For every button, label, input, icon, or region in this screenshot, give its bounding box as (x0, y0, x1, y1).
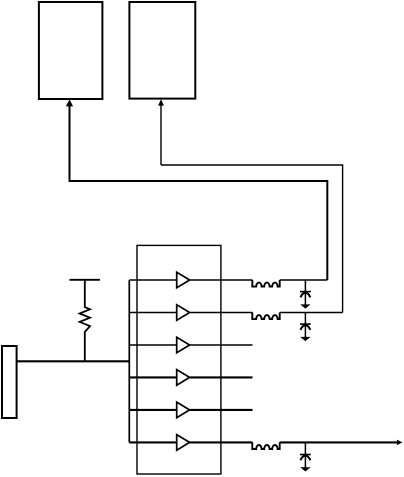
wire row3 stub (190, 344, 253, 346)
input bus (128, 280, 130, 442)
arrowhead into box 2 (158, 99, 164, 105)
wire row4 left (129, 376, 177, 378)
wire row5 stub (190, 409, 253, 411)
buffer U1E (177, 402, 190, 418)
arrowhead into box 1 (66, 99, 73, 106)
buffer U1C (177, 337, 190, 353)
inductor L1 (252, 280, 279, 287)
diode stack D1 (300, 280, 311, 309)
diode stack D3 (300, 442, 311, 471)
wire row4 stub (190, 376, 253, 378)
wire input (17, 360, 130, 362)
arrowhead output (397, 440, 403, 446)
wire row2 right (190, 312, 253, 314)
diode stack D2 (300, 313, 311, 342)
buffer U1B (177, 305, 190, 321)
wire row2 coil to vertical (280, 312, 343, 314)
wire box1 to row1 (70, 103, 328, 280)
wire row6 output (280, 441, 399, 443)
inductor L3 (252, 442, 279, 449)
block box 1 (39, 2, 103, 99)
wire row1 coil to vertical (280, 279, 328, 281)
block box 2 (129, 2, 195, 99)
wire row1 right (190, 279, 253, 281)
resistor R1 (80, 280, 90, 362)
buffer box U1 (137, 245, 221, 474)
buffer U1A (177, 272, 190, 288)
buffer U1F (177, 435, 190, 451)
wire row6 right (190, 441, 253, 443)
antenna bar (70, 279, 100, 281)
wire row3 left (129, 344, 177, 346)
connector J1 (2, 346, 17, 418)
inductor L2 (252, 313, 279, 320)
wire row1 left (129, 279, 177, 281)
wire box2 vertical drop (160, 103, 162, 165)
wire row6 left (129, 441, 177, 443)
wire box2 to row2 (161, 165, 343, 313)
buffer U1D (177, 370, 190, 386)
wire row2 left (129, 312, 177, 314)
wire row5 left (129, 409, 177, 411)
